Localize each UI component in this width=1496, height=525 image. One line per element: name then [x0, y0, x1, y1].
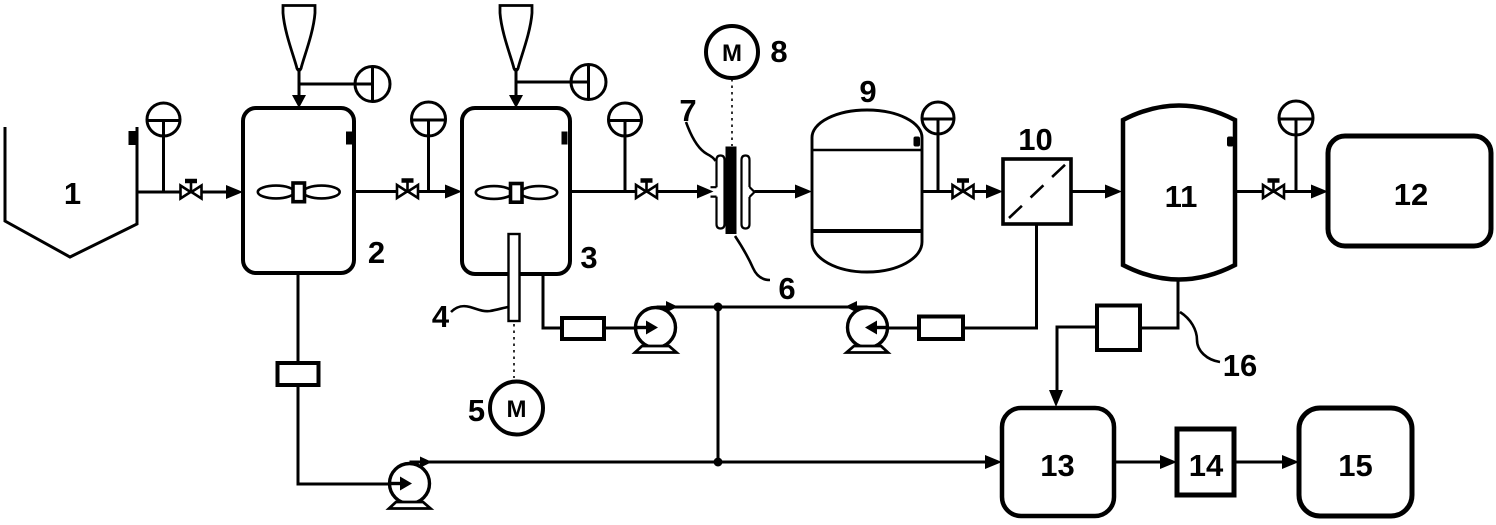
vessel 3 sensor square — [562, 132, 568, 145]
svg-text:1: 1 — [64, 176, 81, 211]
funnel F3 — [500, 6, 532, 71]
arrow funnel F3 into vessel 3 — [509, 95, 523, 108]
svg-text:9: 9 — [859, 74, 876, 109]
box 14 — [1177, 429, 1234, 495]
arrow small before pump P3 — [845, 301, 857, 313]
wire vessel3 to valve V3 — [570, 190, 639, 193]
arrow into vessel 11 — [1105, 185, 1122, 199]
svg-text:16: 16 — [1223, 348, 1257, 383]
svg-text:7: 7 — [679, 93, 696, 128]
wire pump P3 to block B3 — [888, 327, 919, 330]
wire bottom manifold to box 13 — [410, 461, 989, 464]
gauge G2 — [412, 102, 446, 191]
motor M5 — [490, 382, 543, 435]
box 15 — [1299, 408, 1412, 516]
svg-text:10: 10 — [1018, 122, 1052, 157]
block B3 — [919, 317, 963, 340]
svg-text:14: 14 — [1189, 448, 1224, 483]
wire vessel 11 bottom drop — [1140, 281, 1178, 328]
flow indicator C2 — [571, 65, 606, 100]
box 13 — [1002, 408, 1114, 516]
impeller vessel 3 — [476, 184, 557, 203]
flow indicator C1 — [355, 67, 390, 102]
tank 1 — [5, 127, 137, 257]
funnel F2 — [283, 6, 315, 71]
wire funnel F3 drop — [515, 68, 518, 98]
svg-text:6: 6 — [778, 271, 795, 306]
arrow into vessel 9 — [795, 185, 812, 199]
dotted link M8 to homogenizer — [731, 79, 733, 146]
block B4 — [1097, 306, 1140, 351]
wire vessel 9 outlet — [922, 190, 954, 193]
vessel 2 sensor square — [346, 132, 352, 145]
arrow into vessel 3 — [445, 185, 462, 199]
pump P2 — [635, 308, 677, 353]
arrow into membrane 10 — [986, 185, 1003, 199]
membrane 10 dashed diagonal — [1009, 165, 1065, 218]
svg-text:M: M — [722, 40, 742, 67]
svg-text:8: 8 — [770, 34, 787, 69]
gauge LG1 — [147, 103, 180, 191]
arrow into vessel 12 — [1311, 185, 1328, 199]
pump P1 — [389, 464, 431, 509]
vessel 11 — [1123, 106, 1235, 280]
valve V2 — [397, 181, 418, 199]
svg-text:2: 2 — [368, 235, 385, 270]
leader 6 — [735, 236, 770, 280]
junction dot top — [714, 303, 723, 312]
dotted link tube to motor M5 — [513, 324, 515, 378]
tank 1 sensor square — [129, 131, 137, 145]
wire junction vertical — [717, 307, 720, 462]
wire branch to flow indicator C2 — [516, 81, 589, 84]
arrow into box 13 top — [1049, 390, 1063, 407]
vessel 9 — [812, 110, 922, 272]
wire valve V4 to membrane 10 — [974, 190, 989, 193]
wire B4 to box 13 — [1057, 327, 1097, 392]
wire valve V3 to homogenizer — [657, 190, 700, 193]
wire pump top manifold — [657, 306, 868, 309]
arrow into box 15 — [1282, 455, 1299, 469]
valve V1 — [181, 181, 202, 199]
motor M8 — [706, 26, 758, 78]
impeller vessel 2 — [258, 183, 340, 202]
svg-text:3: 3 — [580, 240, 597, 275]
gauge G4 — [922, 102, 954, 191]
svg-text:M: M — [507, 396, 527, 423]
wire vessel 2 bottom drop — [297, 273, 300, 363]
leader 4 — [451, 306, 508, 312]
pump P3 — [847, 308, 889, 353]
valve V4 — [953, 181, 974, 199]
arrow into homogenizer — [697, 185, 714, 199]
arrow small after pump P2 — [666, 301, 678, 313]
wire box 13 to box 14 — [1114, 461, 1162, 464]
homogenizer disc 6 (black bar) — [726, 147, 737, 235]
valve V5 — [1263, 181, 1284, 199]
wire homogenizer to vessel 9 — [755, 190, 798, 193]
svg-text:15: 15 — [1338, 448, 1372, 483]
vessel 9 top tray line — [812, 149, 922, 152]
vessel 11 sensor dot — [1227, 137, 1234, 147]
arrow small after pump P1 — [420, 457, 432, 468]
vessel 9 bottom tray line — [812, 229, 922, 233]
wire funnel F2 drop — [298, 68, 301, 98]
arrow into box 14 — [1160, 455, 1177, 469]
block B2 — [562, 318, 604, 339]
wire B1 down and to pump P1 — [298, 385, 389, 484]
wire vessel 11 outlet — [1235, 190, 1313, 193]
arrow into vessel 2 — [226, 185, 243, 199]
wire vessel2 to vessel3 — [354, 190, 447, 193]
svg-text:12: 12 — [1394, 177, 1428, 212]
vessel 12 — [1328, 136, 1491, 246]
arrow into box 13 — [985, 455, 1002, 469]
wire box 14 to box 15 — [1234, 461, 1284, 464]
wire branch to flow indicator C1 — [299, 83, 373, 86]
homogenizer right plate — [742, 156, 755, 229]
vessel 3 — [462, 108, 570, 274]
svg-text:11: 11 — [1165, 179, 1198, 214]
block B1 — [278, 363, 319, 385]
membrane module 10 — [1003, 159, 1071, 224]
leader 16 — [1180, 312, 1220, 362]
svg-text:4: 4 — [432, 299, 450, 334]
gauge G3 — [609, 103, 642, 191]
svg-text:5: 5 — [468, 393, 485, 428]
wire B2 to pump P2 — [604, 327, 638, 330]
wire tank1 outlet — [137, 191, 228, 194]
dip tube 4 — [509, 234, 520, 321]
vessel 9 sensor dot — [914, 137, 921, 147]
junction dot bottom — [714, 458, 723, 467]
leader 7 — [686, 122, 716, 161]
homogenizer left plate 7 — [711, 156, 725, 229]
svg-text:13: 13 — [1040, 448, 1074, 483]
wire membrane 10 to vessel 11 — [1071, 190, 1107, 193]
vessel 2 — [243, 108, 354, 273]
wire vessel 3 bottom drop — [543, 274, 562, 328]
valve V3 — [636, 181, 657, 199]
arrow funnel F2 into vessel 2 — [292, 95, 306, 108]
gauge G5 — [1279, 101, 1313, 191]
wire B3 to membrane 10 bottom — [963, 224, 1037, 328]
